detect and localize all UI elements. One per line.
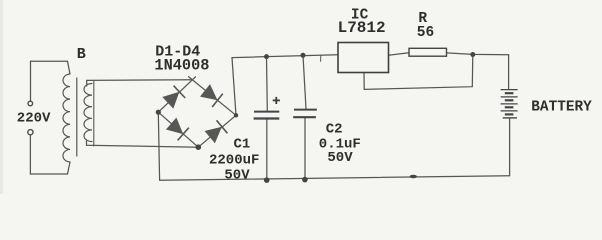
transformer B secondary winding bbox=[84, 84, 92, 142]
resistor R box bbox=[409, 48, 447, 56]
node bridge left corner bbox=[156, 110, 161, 115]
svg-text:50V: 50V bbox=[224, 167, 250, 183]
C1 polarity plus sign bbox=[273, 97, 280, 104]
capacitor C1 plates bbox=[254, 112, 280, 119]
capacitor C1 top lead bbox=[266, 57, 269, 111]
capacitor C2 bottom lead bbox=[304, 118, 306, 180]
diode D (bottom-left) bbox=[166, 118, 189, 141]
node C2 bottom bbox=[302, 177, 308, 183]
stray tick mark on rail bbox=[320, 55, 322, 61]
wire secondary bottom to bridge (node AC2) bbox=[87, 141, 199, 147]
svg-text:C2: C2 bbox=[326, 122, 343, 138]
wire 220V left upper bbox=[30, 61, 32, 101]
bridge edge bottom-right bbox=[198, 115, 236, 147]
capacitor C2 plates bbox=[293, 110, 317, 118]
terminal circle lower bbox=[28, 130, 33, 135]
bridge edge top-left bbox=[158, 77, 195, 112]
battery plates bbox=[501, 90, 518, 118]
svg-text:50V: 50V bbox=[327, 150, 353, 166]
svg-text:2200uF: 2200uF bbox=[209, 152, 259, 168]
transformer B primary top stub bbox=[68, 61, 71, 74]
transformer B primary winding bbox=[63, 74, 70, 162]
node C1 top bbox=[264, 54, 269, 59]
ink blob on rail bbox=[410, 175, 417, 178]
node R-battery junction bbox=[470, 52, 475, 57]
node C2 top bbox=[301, 53, 306, 58]
node bridge bottom corner bbox=[196, 144, 202, 150]
diode D (bottom-right) bbox=[205, 120, 228, 143]
wire DC minus drop bbox=[158, 112, 159, 180]
bridge edge top-right bbox=[189, 77, 237, 116]
wire 220V left lower bbox=[29, 135, 31, 174]
svg-text:1N4008: 1N4008 bbox=[154, 56, 209, 74]
wire DC plus riser bbox=[232, 58, 236, 116]
diode D (top-left) bbox=[162, 86, 185, 109]
transformer B secondary chord line bbox=[93, 81, 95, 147]
wire R to battery junction bbox=[447, 53, 509, 55]
svg-text:220V: 220V bbox=[17, 110, 51, 126]
bridge edge bottom-left bbox=[158, 112, 198, 147]
IC ground return wire bbox=[364, 55, 473, 90]
wire 220V loop top bbox=[31, 60, 68, 62]
wire battery drop bbox=[508, 55, 510, 90]
node C1 bottom bbox=[264, 177, 270, 183]
svg-text:B: B bbox=[77, 46, 86, 63]
svg-text:56: 56 bbox=[417, 25, 434, 41]
svg-text:BATTERY: BATTERY bbox=[531, 99, 592, 115]
node bridge right corner bbox=[234, 113, 238, 117]
op IC output wire bbox=[389, 53, 410, 55]
wire top rail to IC bbox=[232, 55, 338, 58]
terminal circle upper bbox=[28, 101, 33, 106]
transformer B primary bottom stub bbox=[68, 162, 71, 174]
battery bottom lead bbox=[509, 118, 511, 176]
capacitor C1 bottom lead bbox=[266, 120, 268, 181]
op IC L7812 box bbox=[338, 43, 389, 73]
transformer core bbox=[76, 78, 78, 156]
wire secondary top to bridge (node AC1) bbox=[87, 80, 192, 86]
svg-text:C1: C1 bbox=[234, 136, 251, 152]
svg-text:L7812: L7812 bbox=[338, 19, 386, 37]
capacitor C2 top lead bbox=[303, 55, 306, 109]
diode D (top-right) bbox=[200, 84, 223, 107]
wire bottom rail bbox=[160, 176, 510, 181]
wire 220V loop bottom bbox=[30, 173, 67, 175]
